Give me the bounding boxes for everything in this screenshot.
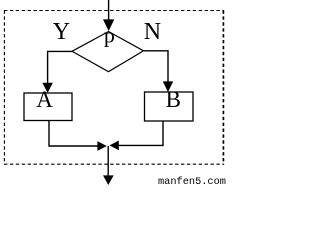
dashed border bottom xyxy=(4,163,224,165)
arrowhead into diamond xyxy=(103,19,114,31)
arrowhead into box A xyxy=(42,83,52,93)
svg-text:N: N xyxy=(144,19,161,45)
arrowhead junction right xyxy=(110,141,119,151)
wire top entry xyxy=(108,0,110,21)
dashed border right xyxy=(222,11,224,165)
wire box A to junction xyxy=(49,121,98,147)
decision diamond xyxy=(72,32,144,72)
arrowhead junction left xyxy=(97,141,106,151)
wire no branch xyxy=(144,51,169,82)
process box B xyxy=(145,92,194,121)
process box A xyxy=(24,93,72,121)
dashed border left xyxy=(3,11,5,165)
svg-text:Y: Y xyxy=(53,19,70,45)
wire yes branch xyxy=(48,51,72,83)
arrowhead into box B xyxy=(163,81,173,92)
wire box B to junction xyxy=(118,121,163,145)
svg-text:B: B xyxy=(166,87,181,112)
wire junction exit xyxy=(107,146,109,177)
svg-text:A: A xyxy=(36,87,53,112)
arrowhead exit bottom xyxy=(103,175,114,185)
svg-text:p: p xyxy=(104,22,115,47)
svg-text:manfen5.com: manfen5.com xyxy=(158,176,226,187)
dashed border top xyxy=(4,10,224,12)
